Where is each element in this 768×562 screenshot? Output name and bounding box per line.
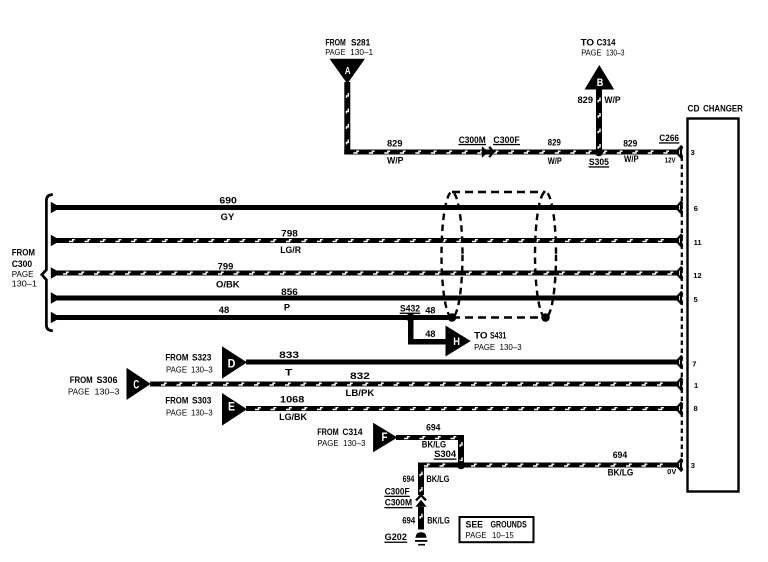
svg-text:130–3: 130–3 — [606, 47, 625, 57]
svg-text:3: 3 — [691, 461, 695, 470]
wire 829 stem from B to S305 — [596, 90, 602, 153]
pin 11 connector flare at y=240.5 — [678, 234, 702, 247]
svg-text:8: 8 — [694, 404, 698, 413]
svg-text:PAGE: PAGE — [325, 47, 346, 57]
svg-text:856: 856 — [281, 287, 298, 297]
wire 829 W/P horizontal — [344, 150, 679, 155]
wire 798 LG/R — [57, 238, 679, 243]
pin 3 connector flare at y=465 — [678, 459, 695, 472]
svg-text:S303: S303 — [192, 396, 211, 406]
svg-text:FROM: FROM — [165, 353, 188, 363]
svg-text:S305: S305 — [589, 157, 609, 167]
svg-text:11: 11 — [694, 238, 702, 247]
label 829 W/P mid — [548, 138, 562, 167]
svg-text:C300M: C300M — [385, 498, 412, 508]
svg-text:130–3: 130–3 — [500, 342, 522, 352]
label FROM S281 — [325, 37, 373, 57]
svg-text:FROM: FROM — [12, 248, 35, 258]
svg-text:GY: GY — [221, 212, 235, 222]
svg-text:829: 829 — [578, 95, 594, 105]
svg-text:T: T — [285, 368, 293, 378]
svg-text:W/P: W/P — [548, 156, 562, 166]
svg-text:B: B — [597, 77, 604, 89]
wire 694 vertical to S304 — [458, 435, 464, 465]
pin 12 connector flare at y=273 — [678, 267, 702, 280]
svg-text:BK/LG: BK/LG — [608, 468, 634, 478]
label TO C314 — [581, 37, 625, 57]
svg-text:798: 798 — [281, 228, 298, 238]
svg-text:829: 829 — [387, 138, 403, 148]
shield left ellipse — [442, 192, 463, 318]
svg-text:C314: C314 — [597, 37, 616, 47]
wire 48 branch horizontal — [408, 339, 447, 345]
svg-text:1068: 1068 — [280, 394, 304, 404]
svg-text:TO: TO — [581, 37, 595, 47]
svg-text:FROM: FROM — [317, 427, 339, 437]
connector label C300F — [384, 486, 410, 497]
svg-text:GROUNDS: GROUNDS — [491, 520, 527, 530]
svg-text:6: 6 — [694, 204, 698, 213]
svg-text:5: 5 — [694, 295, 698, 304]
wire 829 stem from A — [344, 82, 350, 155]
svg-text:694: 694 — [613, 450, 628, 460]
connector triangle D — [222, 346, 247, 378]
svg-text:829: 829 — [548, 138, 561, 148]
svg-text:S306: S306 — [97, 375, 118, 385]
svg-text:SEE: SEE — [466, 520, 484, 530]
svg-text:S432: S432 — [400, 303, 420, 313]
svg-text:S304: S304 — [434, 449, 456, 459]
pin 8 connector flare at y=408.5 — [678, 402, 698, 415]
inline connector C300M/C300F symbol — [482, 146, 494, 158]
svg-text:LB/PK: LB/PK — [346, 388, 375, 398]
connector triangle B — [585, 65, 615, 90]
CD CHANGER box — [688, 103, 744, 491]
arrow wire 798 LG/R — [51, 235, 61, 247]
svg-text:PAGE: PAGE — [474, 342, 495, 352]
svg-text:P: P — [284, 303, 290, 313]
label FROM C314 — [317, 427, 366, 448]
svg-text:7: 7 — [692, 359, 696, 368]
svg-text:W/P: W/P — [604, 95, 620, 105]
connector triangle H — [446, 326, 471, 357]
label FROM S323 — [165, 353, 213, 375]
svg-text:PAGE: PAGE — [581, 47, 602, 57]
svg-text:833: 833 — [279, 350, 299, 360]
note box SEE GROUNDS — [460, 517, 534, 542]
svg-text:C266: C266 — [659, 133, 679, 143]
svg-text:FROM: FROM — [70, 375, 93, 385]
svg-text:130–1: 130–1 — [350, 47, 373, 57]
label FROM S303 — [165, 396, 213, 418]
pin 7 connector flare at y=362 — [678, 356, 697, 369]
svg-text:PAGE: PAGE — [466, 530, 487, 540]
wire 694 vertical to G202 — [418, 507, 424, 530]
svg-text:LG/BK: LG/BK — [279, 412, 307, 422]
svg-text:690: 690 — [219, 195, 237, 205]
svg-text:S431: S431 — [490, 331, 506, 341]
wire 856 P — [57, 296, 679, 301]
svg-text:694: 694 — [402, 516, 415, 526]
shield right ellipse — [535, 192, 556, 318]
svg-text:F: F — [382, 432, 388, 444]
junction S304 — [434, 449, 457, 460]
svg-text:0V: 0V — [667, 469, 676, 476]
svg-text:W/P: W/P — [624, 154, 639, 164]
svg-text:130–1: 130–1 — [12, 279, 38, 289]
pin 3 connector flare at y=152 — [678, 146, 695, 159]
junction S432 — [406, 313, 415, 322]
svg-text:FROM: FROM — [325, 37, 345, 47]
svg-text:694: 694 — [403, 474, 415, 484]
svg-text:PAGE: PAGE — [166, 365, 187, 375]
wire 832 LB/PK — [150, 382, 679, 387]
svg-text:C300F: C300F — [493, 135, 520, 145]
arrow wire 690 GY — [51, 202, 61, 214]
svg-text:O/BK: O/BK — [216, 280, 240, 290]
wire 694 left from S304 — [418, 463, 461, 468]
svg-text:C: C — [133, 380, 139, 392]
svg-text:PAGE: PAGE — [12, 269, 34, 279]
svg-text:832: 832 — [350, 371, 370, 381]
wire 1068 LG/BK — [246, 406, 679, 411]
svg-text:C314: C314 — [342, 427, 362, 437]
pin 1 connector flare at y=384 — [678, 378, 699, 391]
svg-text:A: A — [345, 65, 351, 77]
svg-text:10–15: 10–15 — [492, 530, 514, 540]
shield bottom dashed line — [452, 316, 546, 318]
svg-text:PAGE: PAGE — [68, 387, 90, 397]
wire 48 — [57, 315, 452, 320]
wire 694 BK/LG from F — [396, 435, 464, 440]
ground symbol G202 — [415, 532, 427, 545]
wire 799 O/BK — [57, 271, 679, 276]
connector triangle C — [127, 368, 151, 400]
shield node right — [541, 313, 550, 322]
connector triangle E — [222, 393, 247, 426]
pin 5 connector flare at y=298 — [678, 292, 698, 305]
wire 48 branch vertical — [408, 318, 414, 342]
wire 690 GY — [57, 205, 679, 210]
svg-text:3: 3 — [691, 148, 695, 157]
svg-text:799: 799 — [218, 261, 234, 271]
svg-text:S281: S281 — [351, 37, 370, 47]
svg-text:48: 48 — [425, 306, 435, 316]
svg-text:694: 694 — [426, 422, 440, 432]
svg-text:12V: 12V — [665, 157, 676, 164]
wire 833 T — [246, 360, 679, 365]
svg-text:48: 48 — [425, 329, 435, 339]
arrow wire 799 O/BK — [51, 267, 61, 279]
connector triangle A — [330, 59, 366, 84]
svg-text:E: E — [228, 402, 235, 414]
label 829 W/P right — [623, 139, 639, 164]
shield top dashed line — [452, 191, 546, 193]
svg-text:PAGE: PAGE — [166, 408, 187, 418]
shield node left — [448, 313, 457, 322]
svg-text:130–3: 130–3 — [191, 408, 213, 418]
svg-text:C300M: C300M — [459, 135, 486, 145]
bracket from C300 — [42, 195, 53, 331]
svg-text:12: 12 — [693, 271, 701, 280]
junction S305 — [595, 148, 604, 157]
svg-text:W/P: W/P — [387, 155, 404, 165]
svg-text:CD: CD — [688, 103, 700, 113]
svg-text:PAGE: PAGE — [318, 438, 339, 448]
svg-text:BK/LG: BK/LG — [422, 440, 446, 450]
svg-text:BK/LG: BK/LG — [426, 474, 449, 484]
svg-text:S323: S323 — [192, 353, 211, 363]
svg-text:130–3: 130–3 — [343, 438, 366, 448]
svg-text:D: D — [228, 358, 236, 370]
inline connector C300F/C300M symbol vertical — [415, 495, 426, 507]
svg-text:BK/LG: BK/LG — [427, 516, 450, 526]
connector face dashed line — [681, 157, 683, 463]
svg-text:1: 1 — [694, 381, 698, 390]
svg-text:48: 48 — [219, 305, 229, 315]
svg-text:C300: C300 — [12, 259, 32, 269]
svg-text:G202: G202 — [385, 532, 407, 542]
connector triangle F — [373, 423, 397, 453]
label FROM S306 — [68, 375, 120, 397]
arrow wire 856 P — [51, 292, 61, 304]
connector label C300F — [493, 135, 520, 145]
label 829 W/P left — [387, 138, 404, 165]
svg-text:H: H — [453, 336, 460, 348]
svg-text:LG/R: LG/R — [280, 245, 301, 255]
pin 6 connector flare at y=207.5 — [678, 201, 698, 214]
ground G202 label — [384, 532, 407, 543]
label TO S431 — [474, 331, 522, 352]
svg-text:TO: TO — [474, 331, 488, 341]
svg-text:FROM: FROM — [165, 396, 188, 406]
wire 694 vertical to C300F — [418, 463, 424, 496]
connector label C266 — [659, 133, 679, 144]
svg-text:CHANGER: CHANGER — [703, 103, 743, 113]
svg-text:130–3: 130–3 — [95, 387, 120, 397]
wire 694 BK/LG to pin 3 — [461, 463, 679, 468]
label FROM C300 PAGE 130-1 — [12, 248, 38, 289]
svg-text:C300F: C300F — [385, 486, 410, 496]
connector label C300M — [384, 498, 412, 509]
connector label C300M — [458, 135, 486, 145]
svg-text:829: 829 — [623, 139, 637, 149]
arrow wire 48 — [51, 312, 61, 324]
svg-text:130–3: 130–3 — [191, 365, 213, 375]
